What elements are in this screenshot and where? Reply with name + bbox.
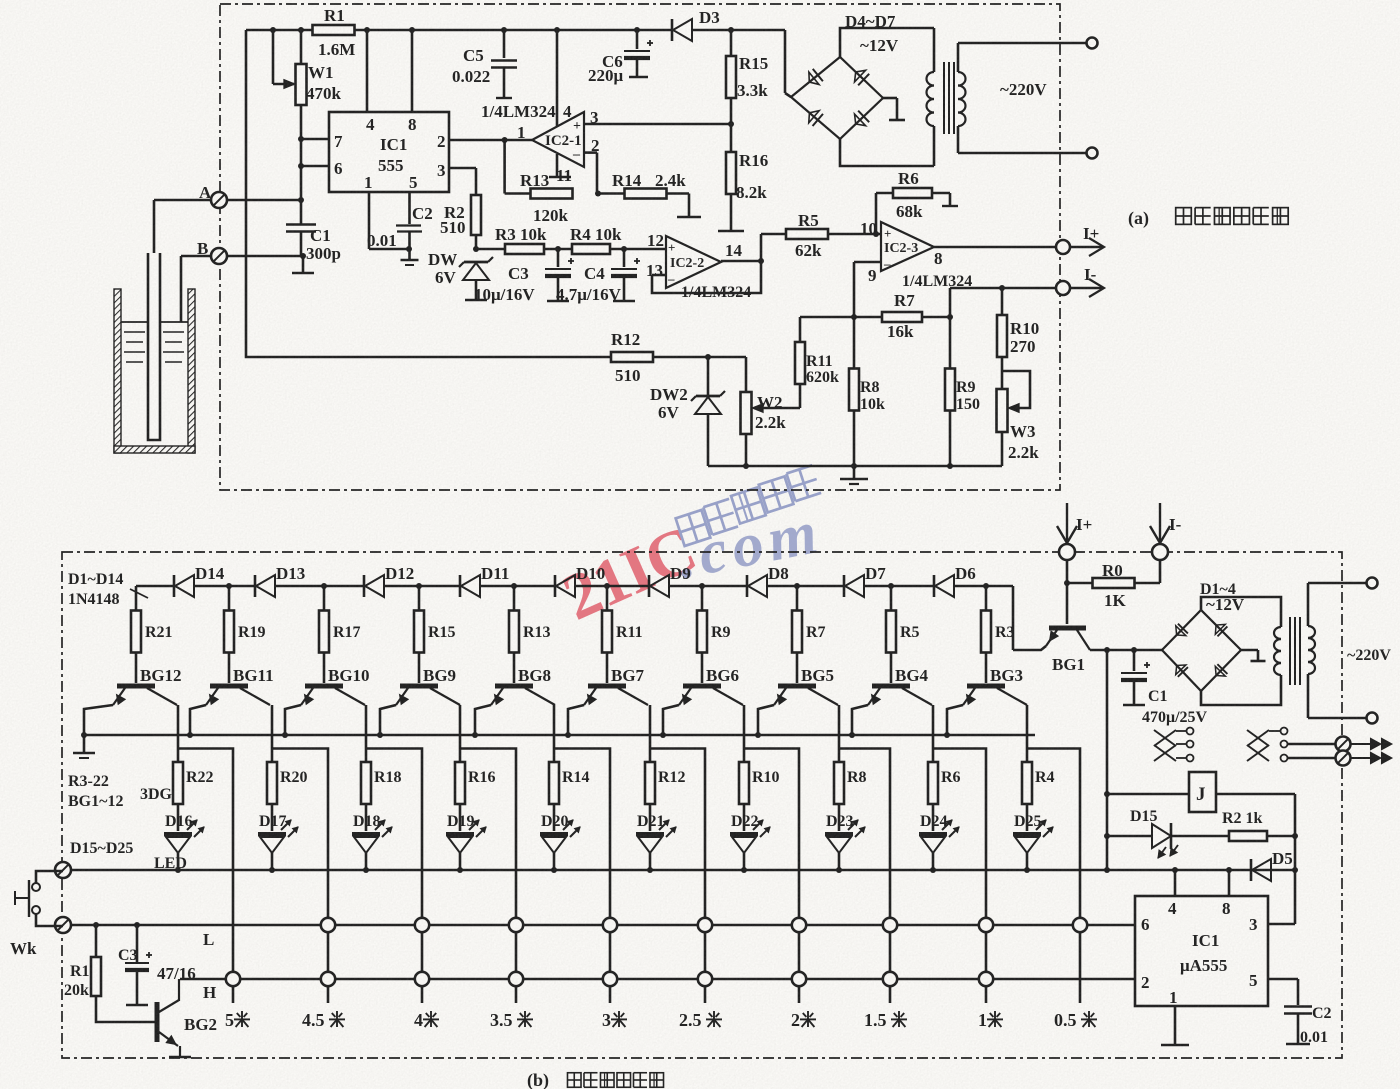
- resistor R16 8.2k: [726, 152, 736, 194]
- diode D14: [173, 575, 176, 597]
- diode D9: [648, 575, 651, 597]
- wire BG1 collector to bridge: [1090, 649, 1162, 652]
- diode D10: [554, 575, 557, 597]
- water level: [121, 321, 148, 323]
- pin3 wire: [1268, 923, 1295, 926]
- resistor R19: [228, 586, 231, 611]
- emitter wire BG9: [380, 705, 396, 735]
- transistor BG12: [117, 684, 155, 689]
- op-amp IC2-3: [881, 222, 934, 271]
- resistor R6: [928, 762, 938, 804]
- resistor R4 10k: [572, 244, 610, 254]
- output I-: [950, 287, 1056, 290]
- bridge to transformer: [840, 28, 934, 57]
- diode D7: [843, 575, 846, 597]
- pin8 wire: [1228, 870, 1231, 896]
- resistor R11: [606, 586, 609, 611]
- probe electrode: [153, 200, 156, 253]
- emitter wire BG3: [947, 705, 963, 735]
- resistor R22: [173, 762, 183, 804]
- emitter wire BG10: [285, 705, 301, 735]
- transistor BG9: [400, 684, 438, 689]
- resistor R2 510: [449, 167, 476, 170]
- transistor BG8: [495, 684, 533, 689]
- LED anode rail: [63, 869, 1295, 872]
- 220V terminals a: [958, 42, 1086, 45]
- capacitor C1 470u/25V: [1133, 650, 1136, 671]
- resistor R0 1K: [1066, 560, 1069, 624]
- resistor R1 20k bottom: [93, 922, 99, 928]
- resistor R12: [645, 762, 655, 804]
- potentiometer W1: [300, 30, 303, 64]
- LED D25: [1026, 804, 1029, 831]
- LED D21: [649, 804, 652, 831]
- top supply rail: [246, 29, 313, 32]
- emitter rail: [84, 734, 1035, 737]
- bridge rectifier D4-D7: [791, 57, 883, 139]
- relay contacts right: [1247, 730, 1269, 746]
- resistor R17: [323, 586, 326, 611]
- collector wire BG3: [1026, 705, 1029, 762]
- transistor BG3: [967, 684, 1005, 689]
- H rail: [180, 978, 1134, 981]
- resistor R15: [418, 586, 421, 611]
- emitter wire BG4: [852, 705, 868, 735]
- left rail wire: [246, 30, 611, 357]
- capacitor C4 4.7u/16V: [623, 249, 626, 267]
- sense tap column 8: [933, 749, 986, 1004]
- sense tap column 4: [554, 749, 610, 1004]
- node C3: [544, 248, 572, 251]
- emitter wire BG6: [663, 705, 679, 735]
- watermark zhongguo dianziwang: [676, 510, 711, 546]
- resistor R9: [701, 586, 704, 611]
- transistor BG10: [305, 684, 343, 689]
- wire pin4 LM324: [556, 30, 559, 126]
- LED D17: [271, 804, 274, 831]
- wire top rail to bridge: [784, 30, 787, 93]
- resistor R18: [361, 762, 371, 804]
- collector wire BG10: [365, 705, 368, 762]
- IC1 555 box: [329, 112, 449, 192]
- wire R2 to R3: [476, 248, 505, 251]
- diode D12: [363, 575, 366, 597]
- capacitor C5 0.022: [503, 30, 506, 58]
- resistor R10: [739, 762, 749, 804]
- diode D11: [459, 575, 462, 597]
- water tank: [114, 289, 121, 453]
- pin1 ground: [1174, 1006, 1177, 1044]
- bottom rail section a: [708, 465, 1002, 468]
- op-amp IC2-1: [532, 112, 584, 167]
- pot W3 2.2k: [997, 389, 1008, 432]
- LED D16: [177, 804, 180, 831]
- transformer b: [1274, 627, 1281, 639]
- resistor R14: [549, 762, 559, 804]
- resistor R12 510: [611, 352, 653, 362]
- node dots top rail: [270, 27, 276, 33]
- diode D5: [1172, 867, 1178, 873]
- collector wire BG6: [743, 705, 746, 762]
- wire W1 to pins: [300, 105, 303, 200]
- transistor BG2: [155, 1002, 160, 1042]
- I- terminal bottom: [1159, 503, 1161, 542]
- resistor R8 10k: [853, 317, 856, 368]
- diode D8: [746, 575, 749, 597]
- wire pin4: [366, 30, 369, 112]
- wire pin2 IC2-1: [584, 151, 597, 154]
- sense tap column 2: [366, 749, 422, 1004]
- transformer a: [933, 28, 936, 72]
- transistor BG4: [872, 684, 910, 689]
- wire 555 pin2 to opamp: [449, 139, 532, 142]
- top section dashed border: [220, 4, 1060, 490]
- sense circles L rail: [321, 918, 335, 932]
- resistor R5: [890, 586, 893, 611]
- relay contacts left: [1154, 730, 1176, 746]
- resistor R3: [985, 586, 988, 611]
- emitter wire BG7: [568, 705, 584, 735]
- resistor R3 10k: [505, 244, 544, 254]
- LED D15: [1107, 835, 1152, 838]
- wire pin3 IC2-1: [584, 123, 731, 126]
- wire pin6: [301, 165, 329, 168]
- collector wire BG4: [932, 705, 935, 762]
- bridge b ground: [1241, 649, 1258, 652]
- watermark .com: [672, 497, 829, 592]
- rail ground: [83, 735, 86, 752]
- collector wire BG12: [177, 705, 180, 762]
- wire pin8: [411, 30, 414, 112]
- relay J: [1106, 650, 1109, 870]
- sense tap column 1: [272, 749, 328, 1004]
- diode D13: [254, 575, 257, 597]
- resistor R7 16k: [851, 314, 857, 320]
- collector wire BG9: [459, 705, 462, 762]
- collector wire BG11: [271, 705, 274, 762]
- LED D20: [553, 804, 556, 831]
- emitter wire BG5: [758, 705, 774, 735]
- collector wire BG5: [838, 705, 841, 762]
- resistor R13 120k: [531, 189, 573, 199]
- bridge ground: [883, 97, 897, 100]
- resistor R10 270: [1001, 288, 1004, 315]
- transistor BG7: [588, 684, 626, 689]
- sense tap column 7: [839, 749, 890, 1004]
- sense tap column 9: [1027, 749, 1080, 1004]
- resistor R16: [455, 762, 465, 804]
- wire R11 top: [800, 316, 854, 319]
- resistor R11 620k: [795, 342, 805, 384]
- output I+: [934, 246, 1056, 249]
- emitter wire BG8: [475, 705, 491, 735]
- diode chain wire: [136, 585, 174, 588]
- resistor R15 3.3k: [730, 30, 733, 56]
- collector wire BG8: [553, 705, 556, 762]
- transistor BG5: [778, 684, 816, 689]
- capacitor C3 10u/16V: [557, 249, 560, 267]
- resistor R8: [834, 762, 844, 804]
- sense circles H rail: [226, 972, 240, 986]
- terminal LED rail: [55, 862, 71, 878]
- pin5 wire: [1268, 978, 1298, 981]
- node C4: [610, 248, 666, 251]
- diode D6: [933, 575, 936, 597]
- wire IC2-2 out: [721, 260, 761, 263]
- capacitor C2 0.01 bottom: [1284, 1005, 1312, 1007]
- transistor BG6: [683, 684, 721, 689]
- resistor R21: [135, 586, 138, 611]
- LED D19: [459, 804, 462, 831]
- capacitor C6 220u: [636, 30, 639, 49]
- wire opamp out to R13: [503, 140, 506, 194]
- I+ terminal bottom: [1066, 503, 1068, 542]
- bottom section dashed border: [62, 552, 1342, 1058]
- bridge rectifier D1-4: [1162, 610, 1241, 691]
- LED D22: [743, 804, 746, 831]
- resistor R13: [513, 586, 516, 611]
- wire B to tank: [180, 256, 183, 322]
- L rail: [63, 924, 1134, 927]
- pin4 wire: [1174, 870, 1177, 896]
- pin11 ground: [556, 154, 559, 176]
- feedback IC2-2: [652, 274, 666, 277]
- contact output wires: [1288, 743, 1336, 746]
- resistor R1: [313, 25, 355, 35]
- bridge b to transformer: [1201, 597, 1281, 627]
- sense tap column 3: [460, 749, 516, 1004]
- ground bottom rail: [853, 466, 856, 478]
- wire pin9: [854, 261, 881, 264]
- zener DW 6V: [473, 246, 479, 252]
- zener DW2 6V: [707, 357, 710, 396]
- resistor R2 1k bottom: [1171, 835, 1229, 838]
- sense tap column 6: [744, 749, 799, 1004]
- 220V terminals b: [1308, 582, 1367, 585]
- switch Wk: [36, 871, 63, 883]
- resistor R7: [796, 586, 799, 611]
- wire pin7: [301, 138, 329, 141]
- capacitor C2 0.01 555: [368, 192, 371, 249]
- transistor BG11: [210, 684, 248, 689]
- pot W2 2.2k: [745, 357, 748, 392]
- resistor R5 62k: [761, 233, 786, 236]
- IC1 uA555 box: [1135, 896, 1268, 1006]
- LED D23: [838, 804, 841, 831]
- emitter wire BG12: [84, 705, 113, 735]
- capacitor C3 47/16: [134, 922, 140, 928]
- resistor R20: [267, 762, 277, 804]
- sense tap column 5: [650, 749, 705, 1004]
- emitter wire BG11: [190, 705, 206, 735]
- resistor R9 150: [949, 288, 952, 368]
- chain corner to BG1 emitter: [1012, 586, 1015, 650]
- terminal B: [181, 255, 303, 258]
- resistor R4: [1022, 762, 1032, 804]
- LED D24: [932, 804, 935, 831]
- capacitor C1 300p: [300, 200, 303, 224]
- terminal A: [154, 199, 301, 202]
- transistor BG1: [1049, 626, 1086, 631]
- LED D18: [365, 804, 368, 831]
- sense tap column 0: [178, 749, 233, 1004]
- watermark 21IC: [553, 513, 706, 635]
- op-amp IC2-2: [666, 236, 721, 288]
- diode D3: [671, 19, 674, 41]
- terminal L rail: [55, 917, 71, 933]
- collector wire BG7: [649, 705, 652, 762]
- resistor R6 68k: [875, 193, 878, 234]
- resistor R14 2.4k: [598, 192, 625, 195]
- wire W2 wiper: [758, 407, 800, 410]
